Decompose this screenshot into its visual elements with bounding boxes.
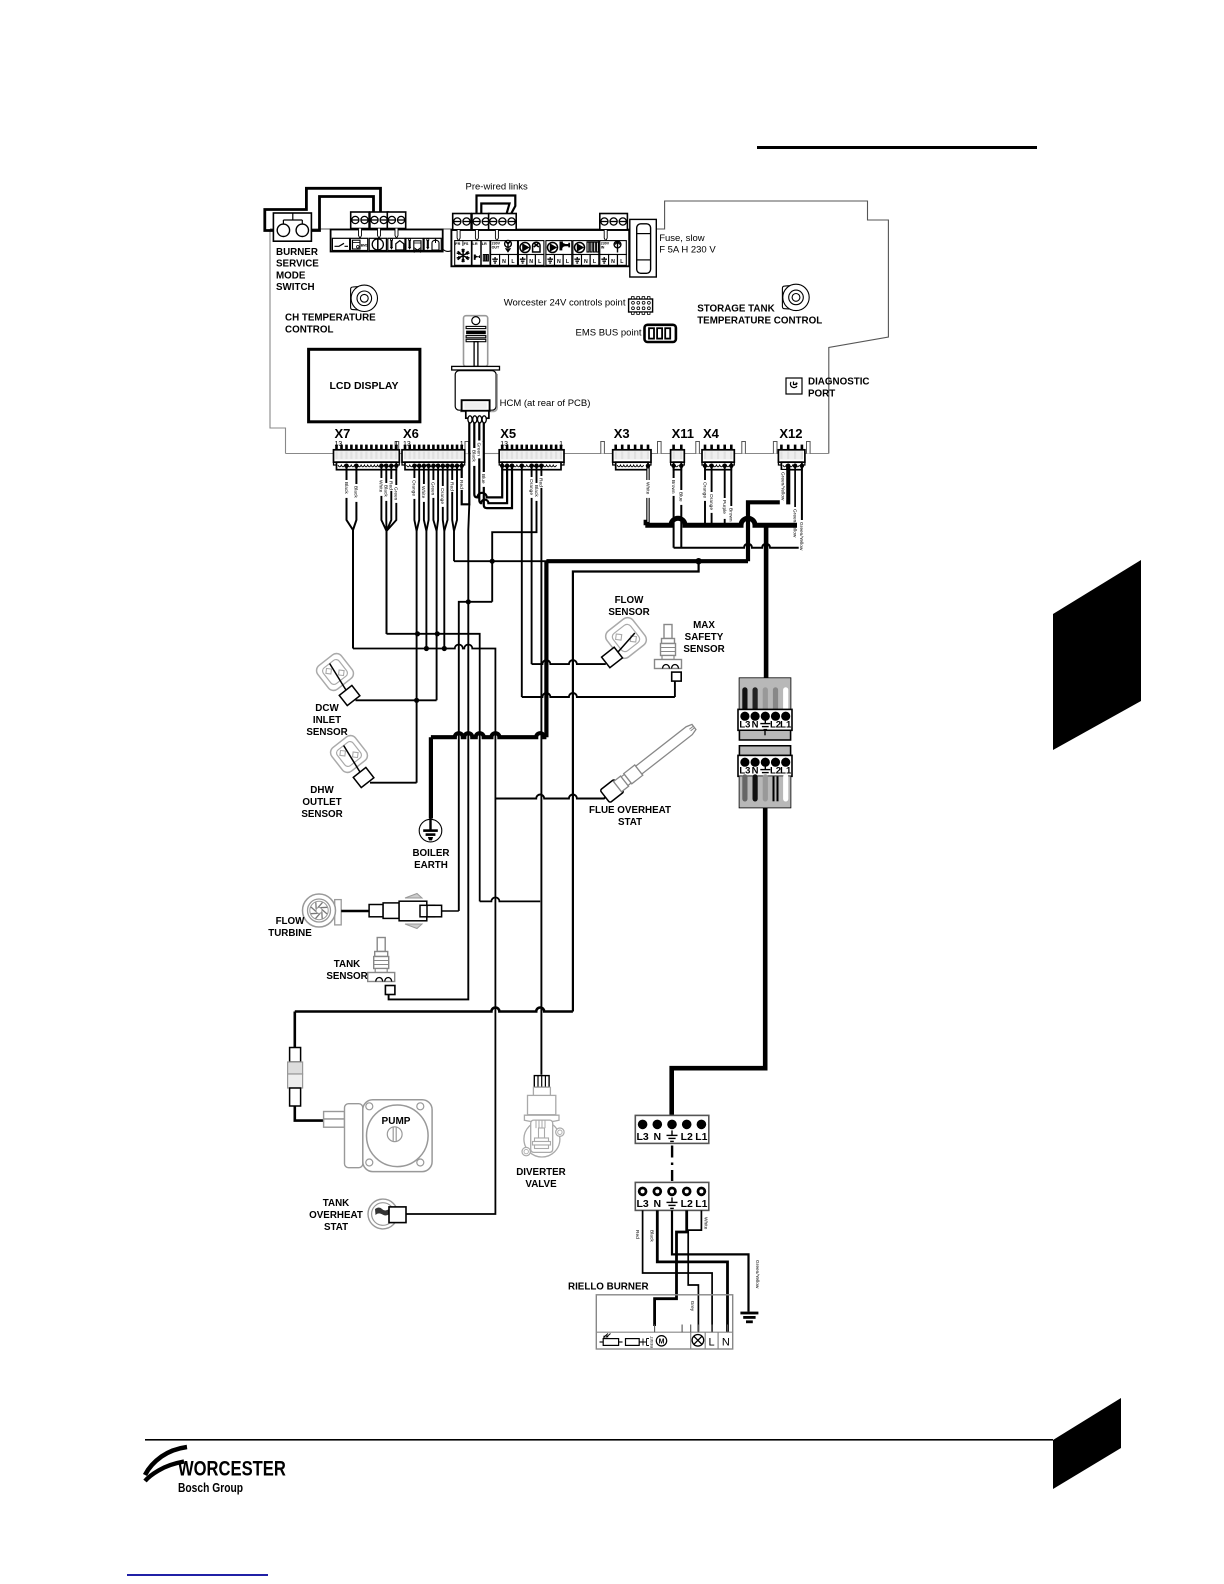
top right heading underline (757, 146, 1037, 149)
svg-text:N: N (584, 259, 588, 265)
terminal block L3/N/E/L2/L1 upper-right (740, 678, 791, 740)
L1 thick riser down to boiler earth (544, 561, 548, 737)
svg-text:Grey: Grey (689, 1301, 695, 1312)
svg-text:N: N (752, 720, 759, 731)
PCB bottom edge segments (286, 453, 334, 455)
svg-text:N: N (502, 259, 506, 265)
flue overheat stat horizontal (495, 795, 593, 799)
thin earth horizontal: X6-red + X5-black join (454, 560, 546, 562)
svg-text:F 5A H 230 V: F 5A H 230 V (659, 244, 716, 255)
svg-text:SENSOR: SENSOR (683, 644, 724, 655)
svg-text:LCD DISPLAY: LCD DISPLAY (329, 380, 398, 392)
svg-text:Black: Black (343, 482, 349, 494)
v495.4 riser down to tank overheat (478, 649, 496, 1012)
burner wires: L2 thick to reset (655, 1210, 687, 1326)
wire from burner switch right pole to terminal (inner loop) (311, 197, 374, 231)
svg-text:SENSOR: SENSOR (306, 727, 347, 738)
HCM (spark generator) (452, 316, 500, 418)
svg-text:X5: X5 (500, 426, 516, 441)
svg-text:FLUE OVERHEAT: FLUE OVERHEAT (589, 805, 671, 816)
svg-text:EMS BUS point: EMS BUS point (576, 327, 642, 338)
svg-text:Red: Red (449, 482, 455, 491)
wire B branch to L2 (573, 561, 699, 1011)
svg-text:X4: X4 (703, 426, 720, 441)
X11 brown and blue wires (673, 466, 675, 548)
DHW wire (370, 782, 417, 784)
svg-text:N: N (654, 1198, 662, 1210)
svg-text:L3: L3 (739, 720, 750, 731)
DCW wire (356, 699, 437, 701)
strip group pump/cylinder (518, 241, 544, 255)
svg-text:Blue: Blue (678, 492, 684, 502)
svg-text:Brown: Brown (670, 480, 676, 494)
mode icon: thermometer + house (CH) (390, 240, 392, 248)
H3: horizontal to flow turbine riser (459, 602, 492, 911)
svg-text:TANK: TANK (334, 959, 360, 970)
tank overheat stat (368, 1199, 398, 1229)
svg-text:Red: Red (458, 480, 464, 489)
thick vertical bus to terminal block 1 (764, 525, 769, 678)
svg-text:1: 1 (394, 441, 398, 448)
HCM wire 4 (blue) to X5 pin11 (484, 422, 512, 508)
boiler earth symbol (419, 819, 442, 842)
flow sensor (591, 615, 649, 670)
connector X5 (501, 445, 504, 450)
svg-text:OUT: OUT (492, 246, 500, 250)
svg-text:STORAGE TANK: STORAGE TANK (697, 304, 774, 315)
svg-text:Red: Red (538, 478, 544, 487)
svg-text:SWITCH: SWITCH (276, 282, 315, 293)
tank sensor (368, 938, 395, 982)
svg-text:STAT: STAT (618, 817, 642, 828)
link from v479.7 to diverter wire (480, 897, 541, 901)
svg-text:SAFETY: SAFETY (685, 632, 724, 643)
flow sensor horizontal (532, 660, 606, 664)
svg-text:L2: L2 (681, 1131, 693, 1143)
X5 red wire down to diverter valve (540, 466, 542, 1075)
svg-text:SENSOR: SENSOR (301, 809, 342, 820)
svg-text:Fuse, slow: Fuse, slow (659, 233, 705, 244)
svg-text:Pre-wired links: Pre-wired links (466, 182, 529, 193)
HCM wire 3 (green) to X5 pin12 (479, 422, 507, 503)
svg-text:SERVICE: SERVICE (276, 259, 319, 270)
svg-text:FLOW: FLOW (276, 916, 306, 927)
svg-text:TEMPERATURE CONTROL: TEMPERATURE CONTROL (697, 316, 822, 327)
svg-text:L1: L1 (695, 1198, 707, 1210)
svg-text:L3: L3 (636, 1198, 648, 1210)
X5 orange wire to flow sensor (531, 466, 533, 664)
svg-text:1: 1 (460, 441, 464, 448)
burner lamp symbol (692, 1335, 704, 1347)
tank sensor pin wire (389, 994, 394, 999)
svg-text:VALVE: VALVE (525, 1179, 557, 1190)
mode icon: BMS (353, 240, 361, 249)
svg-text:CONTROL: CONTROL (285, 325, 333, 336)
mode icon strip (331, 230, 443, 252)
svg-text:FR: FR (455, 242, 460, 246)
X6 wire pairs (414, 466, 416, 531)
strip cell LR tap (472, 241, 481, 266)
flow turbine connector (369, 894, 442, 929)
svg-text:HCM (at rear of PCB): HCM (at rear of PCB) (500, 398, 591, 409)
X3 white wire (double line) (645, 466, 648, 525)
terminal block L3/N/E/L2/L1 (burner side) (635, 1182, 709, 1210)
X12 pin2 thin wire to bus (794, 466, 796, 525)
X12 pin3 thick green/yellow wire (748, 466, 788, 561)
svg-text:OUTLET: OUTLET (302, 797, 341, 808)
flue stat link diagonal (594, 792, 612, 799)
boiler earth horizontal (431, 733, 547, 737)
svg-text:Orange: Orange (701, 482, 707, 498)
mode icon: service switch (335, 243, 349, 246)
DCW inlet sensor (314, 651, 368, 708)
svg-text:N: N (611, 259, 615, 265)
svg-text:X12: X12 (779, 426, 802, 441)
wire from burner switch left pole to terminal (outer loop) (265, 188, 381, 230)
burner wires: L1 white to grey pin (688, 1210, 701, 1332)
svg-text:X7: X7 (335, 426, 351, 441)
HCM wire 2 (black) to X5 pin13 (474, 422, 502, 497)
svg-text:X11: X11 (672, 426, 694, 441)
v454 X6-red to earth horizontal (453, 531, 455, 561)
svg-text:Orange: Orange (439, 488, 445, 504)
PCB edge notches (395, 442, 399, 454)
svg-text:L3: L3 (636, 1131, 648, 1143)
svg-text:Green/Yellow: Green/Yellow (798, 522, 804, 551)
diverter valve (522, 1076, 564, 1157)
svg-text:MAX: MAX (693, 620, 715, 631)
svg-text:RIELLO BURNER: RIELLO BURNER (568, 1282, 649, 1293)
burner motor symbol (656, 1336, 666, 1346)
svg-text:Orange: Orange (708, 494, 714, 510)
svg-text:PUMP: PUMP (382, 1116, 411, 1127)
svg-text:Green/Yellow: Green/Yellow (754, 1260, 760, 1289)
pre-wired links wires (477, 196, 516, 215)
v417.5 DHW riser (416, 531, 418, 783)
X7 white/black/red/green wires merge (381, 466, 386, 634)
connector X4 (704, 445, 707, 450)
fuse holder (630, 219, 657, 277)
svg-text:Black: Black (649, 1230, 655, 1242)
svg-text:Black: Black (353, 486, 359, 498)
svg-text:STAT: STAT (324, 1222, 348, 1233)
dash-dot link between blocks (671, 1146, 673, 1182)
svg-text:TANK: TANK (323, 1198, 349, 1209)
svg-text:Worcester 24V controls point: Worcester 24V controls point (504, 298, 626, 309)
Worcester logo wave (145, 1447, 187, 1481)
svg-text:RESET: RESET (650, 1335, 654, 1348)
flow turbine wire (341, 910, 369, 913)
svg-text:INLET: INLET (313, 715, 341, 726)
svg-text:L2: L2 (681, 1198, 693, 1210)
mode icon: thermometer + cylinder (DHW) (409, 240, 411, 248)
LCD display box (309, 349, 420, 422)
wire to pump (295, 1106, 324, 1121)
tank sensor riser upper segment from HCM joint (468, 504, 469, 602)
svg-text:N: N (654, 1131, 662, 1143)
svg-text:1: 1 (559, 441, 563, 448)
svg-text:Blue: Blue (480, 474, 486, 484)
burner icons: photocell (604, 1334, 611, 1338)
diagnostic port (786, 378, 802, 394)
svg-text:EARTH: EARTH (414, 860, 448, 871)
EMS BUS point connector (645, 325, 676, 342)
flow turbine wire thin from connector to riser (442, 910, 459, 912)
strip group pump/radiator (573, 241, 599, 255)
burner service mode switch (273, 213, 311, 241)
strip cell FR FS snowflake (455, 241, 472, 266)
Worcester 24V controls point connector (629, 297, 653, 315)
230V strip screw group 230V OUT (489, 214, 517, 231)
v444.3 to H2 (443, 531, 445, 649)
svg-text:Black: Black (533, 485, 539, 497)
svg-text:Brown: Brown (728, 508, 734, 522)
230V strip screw group LR/LR (472, 214, 490, 231)
svg-text:LR: LR (482, 242, 487, 246)
flow turbine (303, 894, 342, 927)
svg-text:CH TEMPERATURE: CH TEMPERATURE (285, 313, 376, 324)
svg-text:White: White (703, 1217, 709, 1230)
earth ground symbol (burner) (740, 1312, 758, 1315)
burner wires: earth to ground symbol (672, 1210, 749, 1311)
v437 DCW riser (436, 531, 438, 700)
svg-text:X6: X6 (403, 426, 419, 441)
svg-text:LR: LR (473, 242, 478, 246)
H2: safety loop horizontal to tank overheat stat riser (353, 645, 478, 649)
svg-text:L1: L1 (695, 1131, 707, 1143)
svg-text:WORCESTER: WORCESTER (178, 1457, 286, 1481)
burner wires: L3 red (643, 1210, 713, 1332)
X6 pin1 red wire to HCM (462, 422, 470, 504)
svg-text:IN: IN (601, 246, 605, 250)
max safety sensor pin wire (674, 681, 676, 697)
connector X11 (672, 445, 675, 450)
svg-text:13: 13 (500, 441, 508, 448)
svg-text:L: L (708, 1337, 714, 1349)
bottom horizontal rule (145, 1439, 1053, 1441)
svg-text:N: N (529, 259, 533, 265)
H1 horizontal (sensor common) (387, 634, 480, 902)
tank sensor horizontal (394, 602, 469, 1000)
svg-text:DCW: DCW (315, 703, 339, 714)
PCB outline (270, 201, 888, 454)
svg-text:Green: Green (430, 482, 436, 496)
svg-text:MODE: MODE (276, 270, 306, 281)
pump feed horizontal (295, 1008, 573, 1012)
230V main terminal strip (451, 230, 629, 266)
strip group pump/tap (546, 241, 572, 255)
terminal block group 1 (mode switch) (351, 212, 369, 229)
mode icon: standby (372, 239, 383, 250)
flue overheat stat probe (600, 721, 699, 803)
X5 black wire: down-left-down (492, 466, 536, 602)
terminal block L3/N/E/L2/L1 (boiler side) (635, 1115, 709, 1143)
svg-text:BMS: BMS (361, 243, 369, 247)
horizontal c thick: to junction and L1 (546, 559, 748, 563)
svg-text:DIVERTER: DIVERTER (516, 1167, 566, 1178)
storage tank temperature control knob (782, 284, 809, 310)
svg-text:FLOW: FLOW (615, 595, 645, 606)
svg-text:13: 13 (403, 441, 411, 448)
svg-text:DIAGNOSTIC: DIAGNOSTIC (808, 377, 870, 388)
svg-text:X3: X3 (614, 426, 630, 441)
svg-text:White: White (644, 482, 650, 495)
svg-text:Green: Green (393, 487, 399, 501)
v426.4 to H2 (425, 531, 427, 649)
svg-text:BURNER: BURNER (276, 247, 318, 258)
svg-text:OVERHEAT: OVERHEAT (309, 1210, 363, 1221)
terminal block L3/N/E/L2/L1 lower-right (740, 746, 791, 808)
svg-text:BOILER: BOILER (412, 848, 449, 859)
thick wire continues below right terminal blocks (672, 808, 766, 1116)
bottom blue line (127, 1574, 268, 1576)
svg-text:Green/Yellow: Green/Yellow (779, 472, 785, 501)
tank overheat stat wire (406, 1012, 495, 1215)
svg-text:FS: FS (464, 242, 469, 246)
connector X3 (614, 445, 617, 450)
connector X12 (780, 445, 783, 450)
inline connector (pump lead) (288, 1048, 303, 1107)
strip group 230V OUT (491, 241, 518, 255)
svg-text:13: 13 (335, 441, 343, 448)
burner icons: heater box (626, 1339, 640, 1346)
svg-text:L1: L1 (780, 720, 792, 731)
mode icon: thermometer + tank (storage) (427, 240, 429, 248)
svg-text:DHW: DHW (310, 785, 334, 796)
terminal block group 3 (mode switch) (387, 212, 405, 229)
svg-text:Red: Red (634, 1230, 640, 1239)
DHW outlet sensor (328, 733, 382, 790)
X7 black wires merge (347, 466, 354, 649)
svg-text:N: N (722, 1337, 730, 1349)
X5 pin9 wire to max safety sensor (521, 466, 523, 697)
strip cell LR radiator (481, 241, 490, 266)
svg-text:TURBINE: TURBINE (268, 928, 312, 939)
CH temperature control knob (351, 285, 378, 311)
svg-text:Green: Green (476, 443, 482, 457)
svg-text:SENSOR: SENSOR (608, 607, 649, 618)
max safety horizontal (522, 693, 675, 697)
svg-text:M: M (659, 1339, 665, 1346)
pump (324, 1100, 432, 1172)
horizontal b: X11 to X12 pin3 (674, 544, 802, 548)
svg-text:SENSOR: SENSOR (326, 971, 367, 982)
svg-text:N: N (557, 259, 561, 265)
svg-text:Orange: Orange (411, 480, 417, 496)
bottom right black tab (1053, 1398, 1121, 1489)
230V strip screw group 230V IN (600, 214, 628, 231)
X12 green/yellow labels (780, 470, 786, 509)
connector X7 (335, 445, 338, 450)
svg-text:Bosch Group: Bosch Group (178, 1480, 243, 1495)
strip group 230V IN (600, 241, 627, 255)
connector X6 (404, 445, 407, 450)
230V strip screw group FR/FS (453, 214, 471, 231)
X4 wires to earth bus (704, 466, 706, 525)
svg-text:White: White (420, 486, 426, 499)
terminal block group 2 (mode switch) (370, 212, 388, 229)
max safety sensor (655, 625, 682, 669)
right side black tab (middle) (1053, 560, 1141, 750)
burner wires: N black thick (657, 1210, 727, 1332)
main earth bus (thick) (645, 518, 797, 525)
svg-text:PORT: PORT (808, 389, 835, 400)
svg-text:Purple: Purple (721, 500, 727, 514)
